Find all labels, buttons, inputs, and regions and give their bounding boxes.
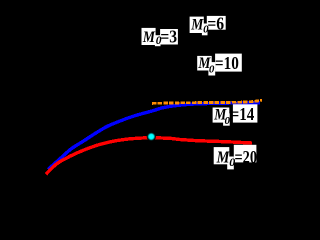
- label M0=10: [197, 53, 242, 76]
- label M0=3: [142, 27, 178, 47]
- blue curve M0=14: [48, 103, 260, 170]
- red curve M0=20: [46, 138, 252, 175]
- label M0=20: [214, 145, 257, 170]
- cyan marker dot: [0, 0, 1, 1]
- svg-text:=20: =20: [235, 146, 258, 167]
- orange dashed asymptote: [152, 100, 262, 103]
- svg-text:0: 0: [209, 63, 215, 75]
- svg-text:M: M: [190, 17, 204, 34]
- svg-text:=10: =10: [215, 53, 239, 74]
- svg-text:=6: =6: [207, 13, 224, 33]
- label M0=14: [213, 104, 258, 127]
- cyan marker dot halo: [147, 132, 156, 141]
- svg-text:=3: =3: [160, 27, 177, 47]
- svg-text:0: 0: [225, 115, 231, 127]
- label M0=6: [190, 13, 226, 35]
- svg-text:=14: =14: [231, 104, 255, 125]
- svg-text:M: M: [142, 29, 156, 46]
- svg-text:M: M: [216, 148, 231, 166]
